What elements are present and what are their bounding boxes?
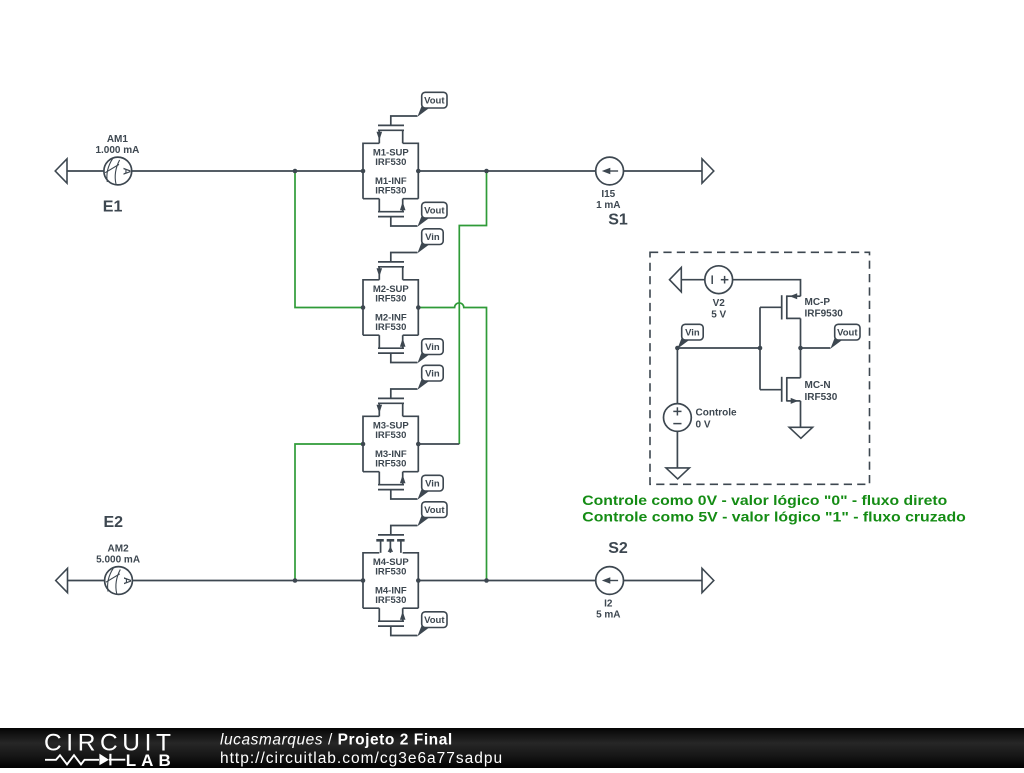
svg-text:Controle: Controle [696, 408, 738, 419]
svg-text:IRF530: IRF530 [375, 459, 406, 470]
svg-text:Vin: Vin [425, 479, 440, 490]
wire output rail (MC-P drain to MC-N drain) [800, 318, 802, 377]
node M3 row junctions [361, 442, 366, 447]
wire row1 to output port [624, 170, 703, 172]
transistor MC-P (PMOS) [760, 293, 801, 319]
transistor MC-N (NMOS) [760, 377, 801, 404]
current source I2 [596, 567, 624, 595]
flag Vout (M1 bottom gate) [417, 202, 447, 227]
flag Vin (M2 top gate) [417, 229, 443, 254]
svg-text:A: A [121, 577, 133, 585]
wire Controle top [676, 348, 678, 404]
flag Vin (M3 bottom gate) [417, 475, 443, 500]
flag Vout (M4 bottom gate) [417, 612, 447, 637]
wire green: row1 to M2 left [295, 171, 363, 308]
wire row2 right [418, 580, 595, 582]
label MC-P IRF9530 [805, 297, 844, 320]
svg-text:IRF530: IRF530 [375, 186, 406, 197]
svg-text:Vout: Vout [424, 96, 445, 107]
svg-text:IRF530: IRF530 [375, 567, 406, 578]
svg-text:S1: S1 [608, 212, 628, 229]
port arrow S1 (right) [702, 159, 714, 183]
wire green: row1 right down to M3 right (via jog) [459, 171, 486, 444]
wire V2 left [681, 279, 705, 281]
ground (Controle) [666, 468, 689, 479]
flag Vout (control output) [830, 324, 860, 349]
wire dark: M3 right stub [418, 443, 459, 445]
port arrow E2 (left) [56, 568, 68, 592]
svg-text:Controle como 0V - valor lógic: Controle como 0V - valor lógico "0" - fl… [582, 492, 947, 508]
transistor M3-SUP (simplified NMOS) [363, 389, 418, 499]
svg-text:E2: E2 [104, 514, 124, 531]
transistor M1-SUP (simplified NMOS) [363, 116, 418, 226]
svg-text:Vout: Vout [424, 505, 445, 516]
svg-text:Vout: Vout [424, 206, 445, 217]
label Controle 0 V [696, 408, 738, 431]
logo resistor zigzag [45, 755, 99, 764]
wire row2 middle [132, 580, 363, 582]
wire output node to Vout flag [801, 347, 831, 349]
voltage source Controle [664, 404, 692, 432]
svg-text:5.000 mA: 5.000 mA [96, 554, 140, 565]
svg-text:Controle como 5V - valor lógic: Controle como 5V - valor lógico "1" - fl… [582, 508, 966, 524]
flag Vin (M2 bottom gate) [417, 339, 443, 364]
wire row1 middle [132, 170, 363, 172]
svg-text:E1: E1 [103, 199, 123, 216]
node dots control circuit [675, 346, 680, 351]
svg-text:IRF530: IRF530 [805, 392, 838, 403]
svg-text:lucasmarques / Projeto 2 Final: lucasmarques / Projeto 2 Final [220, 732, 453, 749]
flag Vout (M1 top gate) [417, 92, 447, 117]
label M1-SUP / M1-INF values [373, 148, 410, 197]
wire Controle bottom [676, 431, 678, 468]
port arrow S2 (right) [702, 568, 714, 592]
wire gate rail [759, 307, 761, 389]
wire MC-N source to ground [800, 401, 802, 427]
label V2 5 V [711, 298, 726, 320]
svg-text:0 V: 0 V [696, 420, 711, 431]
ammeter AM1 [104, 157, 132, 185]
svg-text:A: A [120, 168, 132, 176]
label I15 value [596, 189, 620, 211]
flag Vin (M3 top gate) [417, 365, 443, 390]
wire green: M2 right to row2 (hop over vertical) [418, 303, 486, 581]
label AM2 value [96, 544, 140, 566]
svg-text:http://circuitlab.com/cg3e6a77: http://circuitlab.com/cg3e6a77sadpu [220, 750, 503, 767]
node M2 row junctions [361, 305, 366, 310]
label M3-SUP / M3-INF values [373, 421, 410, 470]
svg-text:IRF530: IRF530 [375, 595, 406, 606]
svg-text:Vout: Vout [837, 328, 858, 339]
label M2-SUP / M2-INF values [373, 284, 410, 333]
label I2 value [596, 599, 620, 621]
transistor M2-SUP (simplified NMOS) [363, 253, 418, 363]
transistor M4-SUP (segmented NMOS) [363, 526, 418, 636]
svg-text:1.000 mA: 1.000 mA [95, 145, 139, 156]
voltage source V2 [705, 266, 733, 294]
svg-text:MC-P: MC-P [805, 297, 831, 308]
svg-text:IRF9530: IRF9530 [805, 309, 844, 320]
port arrow (V2 left) [670, 268, 682, 292]
wire row2 left [67, 580, 104, 582]
svg-text:Vin: Vin [425, 369, 440, 380]
label M4-SUP / M4-INF values [373, 557, 410, 606]
current source I15 [596, 157, 624, 185]
svg-text:5 V: 5 V [711, 309, 726, 320]
node row2 junctions [293, 578, 298, 583]
svg-text:IRF530: IRF530 [375, 430, 406, 441]
ground (MC-N source) [789, 427, 812, 438]
svg-text:5 mA: 5 mA [596, 609, 620, 620]
wire Vin to gate rail [677, 347, 760, 349]
wire row1 left [67, 170, 104, 172]
svg-text:IRF530: IRF530 [375, 322, 406, 333]
svg-text:AM2: AM2 [108, 544, 130, 555]
svg-text:Vin: Vin [425, 232, 440, 243]
svg-text:I15: I15 [601, 189, 615, 200]
node row1 junctions [293, 169, 298, 174]
svg-text:S2: S2 [608, 540, 628, 557]
logo diode [99, 754, 109, 766]
wire row1 right [418, 170, 595, 172]
svg-text:MC-N: MC-N [805, 380, 831, 391]
dashed selection box [650, 252, 870, 484]
flag Vout (M4 top gate) [417, 502, 447, 527]
svg-text:Vin: Vin [425, 342, 440, 353]
svg-text:I2: I2 [604, 599, 613, 610]
svg-text:Vin: Vin [685, 328, 700, 339]
ammeter AM2 [105, 567, 133, 595]
svg-text:LAB: LAB [126, 751, 176, 768]
wire row2 to output port [624, 580, 703, 582]
svg-text:IRF530: IRF530 [375, 157, 406, 168]
label MC-N IRF530 [805, 380, 838, 403]
svg-text:Vout: Vout [424, 615, 445, 626]
port arrow E1 (left) [55, 159, 67, 183]
svg-text:AM1: AM1 [107, 134, 129, 145]
svg-text:1 mA: 1 mA [596, 200, 620, 211]
flag Vin (control input) [677, 324, 703, 349]
wire V2 to MC-P source rail [733, 280, 801, 297]
svg-text:V2: V2 [713, 298, 726, 309]
label AM1 value [95, 134, 139, 156]
svg-text:IRF530: IRF530 [375, 294, 406, 305]
wire green: M3 left down to row2 [295, 444, 363, 581]
